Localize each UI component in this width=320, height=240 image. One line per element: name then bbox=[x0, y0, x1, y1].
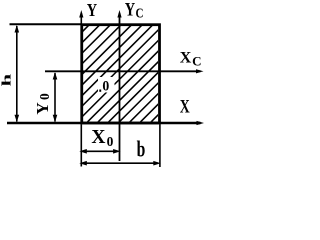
svg-text:C: C bbox=[136, 6, 144, 21]
svg-text:0: 0 bbox=[37, 93, 52, 100]
svg-text:Y: Y bbox=[33, 102, 52, 114]
svg-text:h: h bbox=[0, 74, 13, 87]
svg-text:Y: Y bbox=[87, 0, 98, 20]
svg-text:C: C bbox=[192, 54, 201, 69]
svg-text:0: 0 bbox=[102, 78, 109, 95]
svg-text:Y: Y bbox=[125, 0, 135, 20]
svg-text:X: X bbox=[180, 95, 190, 116]
svg-text:b: b bbox=[137, 137, 146, 163]
svg-text:X: X bbox=[91, 127, 105, 148]
svg-text:0: 0 bbox=[107, 134, 114, 149]
svg-text:X: X bbox=[180, 50, 192, 67]
